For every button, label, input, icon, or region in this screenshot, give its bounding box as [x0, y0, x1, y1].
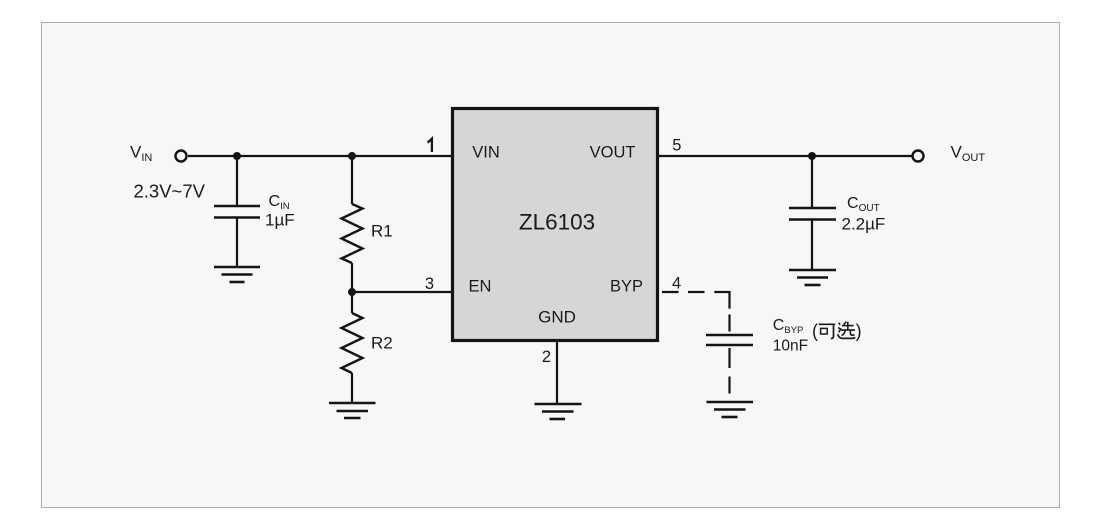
svg-text:EN: EN	[469, 278, 492, 296]
svg-text:R2: R2	[371, 334, 393, 353]
svg-text:4: 4	[672, 275, 681, 293]
svg-text:VOUT: VOUT	[590, 143, 636, 161]
svg-text:BYP: BYP	[610, 278, 643, 296]
svg-text:(: (	[812, 321, 818, 341]
svg-text:2.2µF: 2.2µF	[842, 215, 886, 234]
svg-text:10nF: 10nF	[773, 338, 808, 355]
svg-text:2: 2	[542, 348, 551, 366]
svg-text:R1: R1	[371, 222, 393, 241]
svg-text:2.3V~7V: 2.3V~7V	[134, 181, 206, 202]
svg-text:3: 3	[425, 275, 434, 293]
svg-text:1µF: 1µF	[265, 211, 295, 230]
svg-text:ZL6103: ZL6103	[519, 210, 595, 235]
svg-text:5: 5	[672, 137, 681, 155]
svg-text:): )	[856, 321, 862, 341]
svg-text:GND: GND	[538, 308, 576, 327]
svg-text:VIN: VIN	[472, 143, 500, 161]
